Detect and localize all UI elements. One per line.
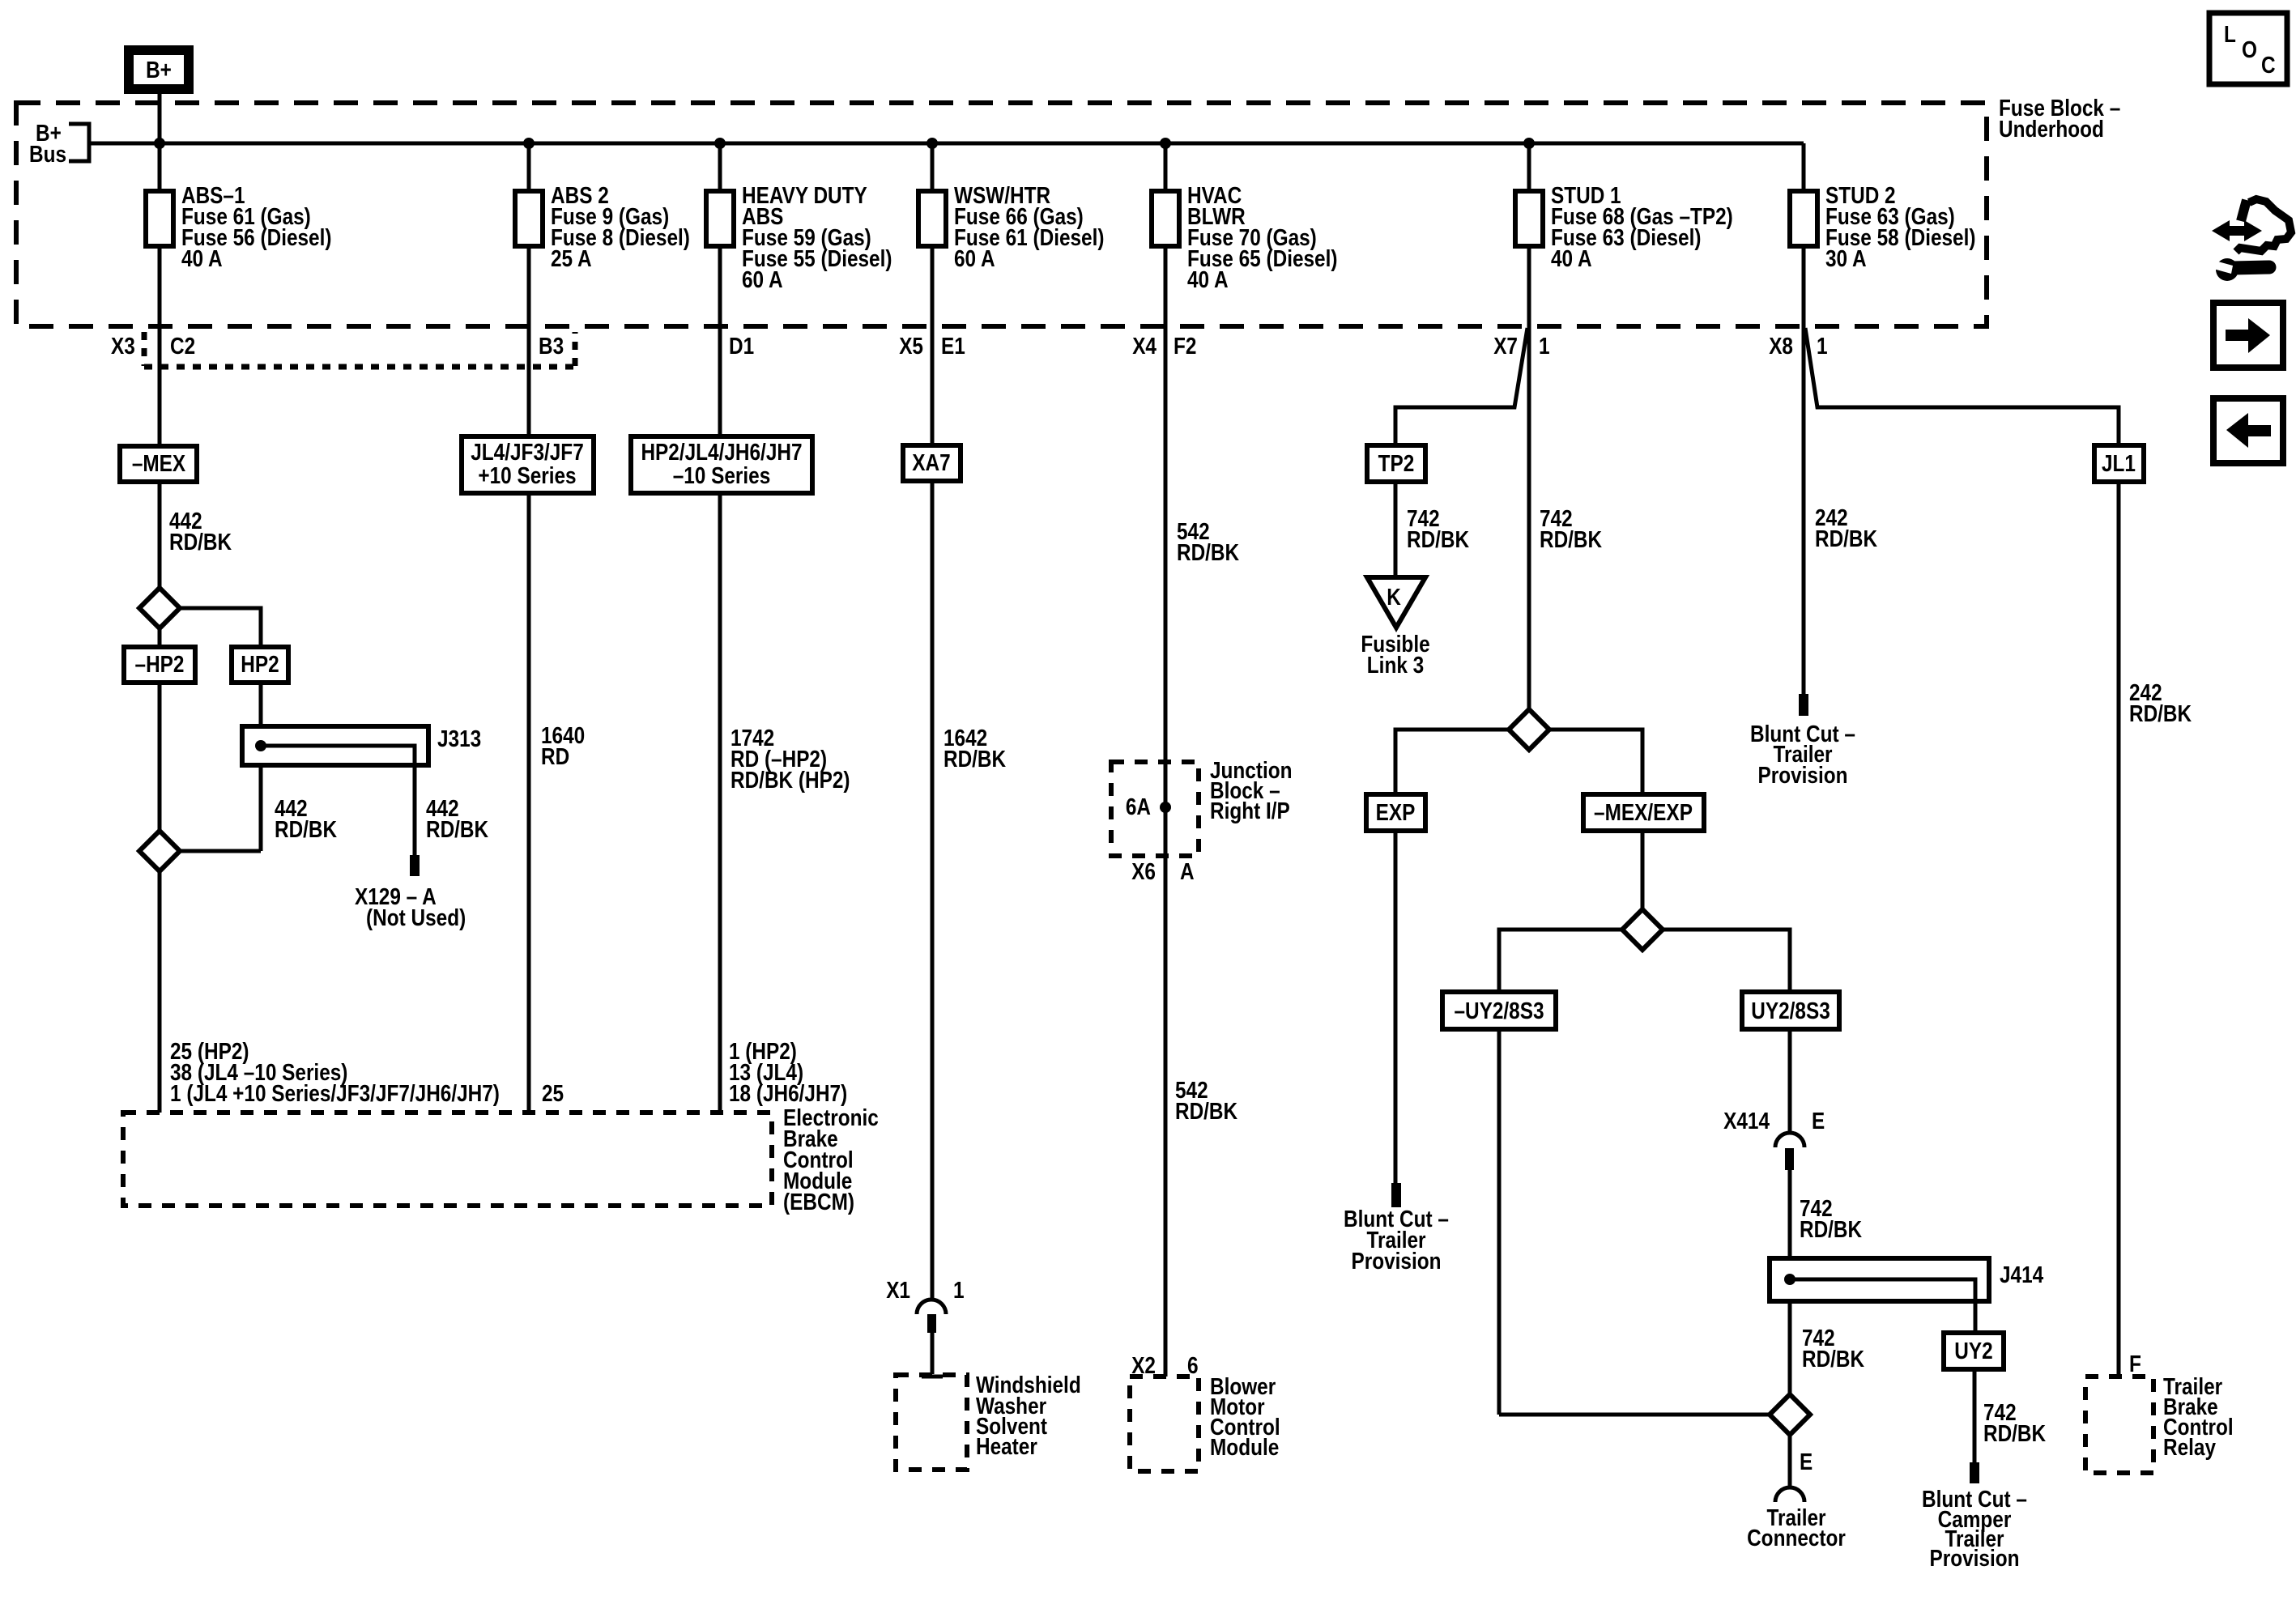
svg-text:RD/BK: RD/BK xyxy=(1177,540,1239,566)
svg-text:UY2: UY2 xyxy=(1954,1338,1992,1364)
svg-text:Provision: Provision xyxy=(1758,763,1848,789)
svg-text:X7: X7 xyxy=(1493,334,1518,360)
junction block right IP dashed outline xyxy=(1111,762,1199,856)
svg-text:1: 1 xyxy=(1817,334,1828,360)
svg-text:Heater: Heater xyxy=(976,1434,1037,1460)
svg-text:–UY2/8S3: –UY2/8S3 xyxy=(1454,998,1544,1024)
option box -HP2 xyxy=(124,647,195,683)
wire to -MEX/EXP xyxy=(1549,730,1642,794)
node junction dot fuse6 xyxy=(1523,138,1535,149)
icon service glove outline xyxy=(2236,199,2291,252)
icon double arrow xyxy=(2212,220,2262,241)
wire diamond to -UY2/8S3 leg xyxy=(1499,1413,1770,1417)
svg-text:RD/BK: RD/BK xyxy=(1802,1347,1864,1372)
svg-text:RD/BK (HP2): RD/BK (HP2) xyxy=(731,768,850,794)
svg-text:E: E xyxy=(1800,1449,1813,1475)
splice pack J414 xyxy=(1770,1258,1989,1301)
svg-text:X3: X3 xyxy=(111,334,135,360)
splice diamond trailer xyxy=(1770,1394,1810,1435)
svg-text:40 A: 40 A xyxy=(1551,246,1592,272)
SECTION: stud1 branch xyxy=(1344,326,2046,1572)
icon LOC box xyxy=(2209,13,2287,84)
svg-text:D1: D1 xyxy=(729,334,754,360)
fuse STUD 1 xyxy=(1515,191,1543,246)
svg-text:J313: J313 xyxy=(437,726,481,752)
svg-text:25: 25 xyxy=(542,1081,564,1107)
option box -MEX xyxy=(120,446,197,482)
svg-text:Provision: Provision xyxy=(1930,1546,2020,1572)
wire to EBCM pin xyxy=(158,871,162,1113)
fuse HEAVY DUTY ABS xyxy=(706,191,734,246)
wire bus drop fuse3 xyxy=(718,143,722,326)
svg-text:RD/BK: RD/BK xyxy=(1815,526,1877,552)
connector X1 arc xyxy=(917,1300,946,1314)
svg-text:K: K xyxy=(1387,585,1401,611)
svg-text:F: F xyxy=(2129,1351,2141,1377)
svg-text:XA7: XA7 xyxy=(912,450,950,476)
connector X414 arc xyxy=(1775,1133,1804,1147)
svg-text:6A: 6A xyxy=(1126,794,1151,820)
terminal X129 blunt xyxy=(410,855,420,876)
option box -MEX/EXP xyxy=(1583,794,1704,831)
node 6A dot xyxy=(1160,802,1171,813)
connector trailer arc xyxy=(1775,1487,1804,1502)
wire UY2 to camper blunt cut xyxy=(1973,1369,1977,1462)
wire STUD1 742 RD/BK xyxy=(1527,326,1531,709)
fuse ABS-1 xyxy=(146,191,173,246)
wire branch to HP2 xyxy=(180,608,261,647)
node junction dot fuse3 xyxy=(714,138,726,149)
svg-text:RD/BK: RD/BK xyxy=(275,817,337,843)
svg-text:O: O xyxy=(2242,37,2257,63)
svg-text:HP2: HP2 xyxy=(241,652,279,678)
option box -UY2/8S3 xyxy=(1442,992,1556,1029)
svg-text:HP2/JL4/JH6/JH7: HP2/JL4/JH6/JH7 xyxy=(641,440,802,466)
fuse STUD 2 xyxy=(1790,191,1817,246)
wire X7 slant to TP2 xyxy=(1395,328,1527,445)
terminal blunt cut trailer provision right xyxy=(1799,694,1808,716)
svg-text:1: 1 xyxy=(1539,334,1550,360)
svg-text:L: L xyxy=(2224,22,2236,48)
wire STUD2 242 RD/BK xyxy=(1802,326,1806,694)
svg-text:X1: X1 xyxy=(886,1278,910,1304)
battery feed B+ terminal xyxy=(129,50,189,89)
svg-text:TP2: TP2 xyxy=(1378,451,1415,477)
option box XA7 xyxy=(903,445,961,481)
wire HP2 to splice pack xyxy=(259,683,263,851)
SECTION: left branch ABS-1 xyxy=(120,446,879,1215)
connector C2-B3 dotted outline xyxy=(144,332,575,367)
SECTION: branches ABS2 HDABS WSW HVAC xyxy=(462,326,1293,1471)
wire to EXP xyxy=(1395,730,1509,794)
option box HP2 xyxy=(232,647,288,683)
wire J414 branch to UY2 xyxy=(1790,1279,1975,1333)
svg-text:J414: J414 xyxy=(2000,1262,2043,1288)
svg-text:–HP2: –HP2 xyxy=(135,652,185,678)
SECTION: stud2 branch xyxy=(1750,326,2234,1473)
node junction dot fuse4 xyxy=(926,138,938,149)
svg-text:–MEX/EXP: –MEX/EXP xyxy=(1594,800,1693,826)
svg-text:X6: X6 xyxy=(1131,859,1156,885)
wire 442 RD/BK upper xyxy=(158,482,162,588)
svg-text:RD/BK: RD/BK xyxy=(169,530,232,555)
wire to UY2/8S3 xyxy=(1663,930,1790,992)
svg-text:RD/BK: RD/BK xyxy=(1175,1099,1237,1125)
svg-text:EXP: EXP xyxy=(1376,800,1416,826)
svg-text:Connector: Connector xyxy=(1747,1526,1846,1551)
option box JL1 xyxy=(2094,445,2144,482)
wire bus drop fuse6 xyxy=(1527,143,1531,326)
svg-text:(EBCM): (EBCM) xyxy=(783,1189,854,1215)
svg-text:40 A: 40 A xyxy=(1187,267,1229,293)
wire EXP to blunt cut xyxy=(1394,831,1398,1183)
module EBCM dashed outline xyxy=(123,1113,772,1206)
wire WSW circuit 1642 xyxy=(931,326,935,1300)
wire ABS2 circuit 1640 xyxy=(527,326,531,1113)
node J313 dot xyxy=(255,740,266,751)
fuse HVAC BLWR xyxy=(1152,191,1179,246)
svg-text:X414: X414 xyxy=(1723,1108,1770,1134)
svg-text:RD/BK: RD/BK xyxy=(944,747,1006,772)
icon arrow right box xyxy=(2213,303,2283,368)
svg-text:X5: X5 xyxy=(899,334,923,360)
option box TP2 xyxy=(1367,445,1425,482)
svg-text:E1: E1 xyxy=(941,334,965,360)
svg-text:C2: C2 xyxy=(170,334,195,360)
node junction dot fuse1 xyxy=(154,138,165,149)
option box EXP xyxy=(1366,794,1425,831)
wire -UY2/8S3 down xyxy=(1497,1029,1502,1415)
terminal T bar xyxy=(922,1375,943,1379)
svg-text:RD/BK: RD/BK xyxy=(2129,701,2192,727)
svg-text:A: A xyxy=(1180,859,1195,885)
option box UY2 xyxy=(1944,1333,2004,1369)
wire 242 RD/BK JL1 to relay xyxy=(2117,482,2121,1377)
svg-text:RD/BK: RD/BK xyxy=(1540,527,1602,553)
svg-text:Right I/P: Right I/P xyxy=(1210,798,1290,824)
splice diamond upper xyxy=(139,588,180,628)
wire UY2/8S3 to X414 xyxy=(1788,1029,1792,1134)
Fuse Block - Underhood dashed outline xyxy=(16,103,1987,326)
svg-text:RD/BK: RD/BK xyxy=(426,817,488,843)
svg-text:–MEX: –MEX xyxy=(132,451,186,477)
splice pack J313 xyxy=(242,726,428,765)
wire bus drop fuse2 xyxy=(527,143,531,326)
svg-text:30 A: 30 A xyxy=(1825,246,1867,272)
svg-text:JL1: JL1 xyxy=(2102,451,2136,477)
svg-text:RD/BK: RD/BK xyxy=(1800,1217,1862,1243)
wire X8 slant to JL1 xyxy=(1805,328,2119,445)
wire J313 branch to X129 xyxy=(261,746,415,855)
wire HDABS circuit 1742 xyxy=(718,326,722,1113)
fuse WSW/HTR xyxy=(918,191,946,246)
svg-text:Relay: Relay xyxy=(2163,1435,2216,1461)
wire 742 RD/BK to fusible link xyxy=(1394,482,1398,577)
svg-text:RD: RD xyxy=(541,744,569,770)
option box HP2/JL4/JH6/JH7 -10 Series xyxy=(631,436,812,493)
wire -MEX continues xyxy=(158,628,162,831)
svg-text:X4: X4 xyxy=(1132,334,1157,360)
terminal X414 male xyxy=(1785,1148,1794,1170)
terminal blunt cut trailer provision left xyxy=(1391,1183,1401,1207)
svg-text:18 (JH6/JH7): 18 (JH6/JH7) xyxy=(729,1081,847,1107)
node B+ Bus bracket xyxy=(69,124,89,161)
terminal X1 male xyxy=(927,1314,936,1333)
wire into washer heater xyxy=(931,1333,935,1374)
node J414 dot xyxy=(1784,1274,1795,1285)
svg-text:X8: X8 xyxy=(1769,334,1793,360)
wire HP2 rejoin xyxy=(180,849,261,853)
node junction dot fuse2 xyxy=(523,138,535,149)
svg-text:1: 1 xyxy=(953,1278,965,1304)
wire B+ feed vertical xyxy=(158,94,162,446)
wire bus drop fuse7 xyxy=(1802,143,1806,326)
svg-text:UY2/8S3: UY2/8S3 xyxy=(1751,998,1830,1024)
option box JL4/JF3/JF7 +10 Series xyxy=(462,436,594,493)
svg-text:+10 Series: +10 Series xyxy=(478,463,576,489)
node junction dot fuse5 xyxy=(1160,138,1171,149)
svg-text:B+: B+ xyxy=(146,57,172,83)
svg-text:JL4/JF3/JF7: JL4/JF3/JF7 xyxy=(471,440,584,466)
splice diamond mid xyxy=(1622,909,1663,950)
svg-text:B3: B3 xyxy=(539,334,564,360)
wire bus drop fuse4 xyxy=(931,143,935,326)
option box UY2/8S3 xyxy=(1742,992,1839,1029)
wire to trailer connector xyxy=(1788,1435,1792,1487)
svg-text:Module: Module xyxy=(1210,1435,1279,1461)
svg-text:–10 Series: –10 Series xyxy=(673,463,771,489)
component Blower Motor Control Module dashed outline xyxy=(1130,1377,1199,1471)
svg-text:Provision: Provision xyxy=(1352,1249,1442,1274)
svg-text:60 A: 60 A xyxy=(742,267,783,293)
SECTION: fuse block underhood xyxy=(16,50,2120,446)
svg-text:Underhood: Underhood xyxy=(1999,117,2104,143)
splice diamond stud1 xyxy=(1509,709,1549,750)
wire 742 RD/BK to J414 xyxy=(1788,1169,1792,1394)
wire to -UY2/8S3 xyxy=(1499,930,1622,992)
icon wrench xyxy=(2216,258,2238,281)
component Trailer Brake Control Relay dashed outline xyxy=(2085,1377,2153,1473)
svg-text:1 (JL4 +10 Series/JF3/JF7/JH6/: 1 (JL4 +10 Series/JF3/JF7/JH6/JH7) xyxy=(170,1081,500,1107)
fusible link K xyxy=(1367,577,1425,628)
wire -MEX/EXP to diamond xyxy=(1641,831,1645,909)
svg-text:40 A: 40 A xyxy=(181,246,223,272)
wire bus drop fuse5 xyxy=(1164,143,1168,326)
fuse ABS 2 xyxy=(515,191,543,246)
svg-text:RD/BK: RD/BK xyxy=(1983,1421,2046,1447)
svg-text:25 A: 25 A xyxy=(551,246,592,272)
icon arrow left box xyxy=(2213,398,2283,463)
wire B+ bus xyxy=(89,142,1804,146)
svg-text:60 A: 60 A xyxy=(954,246,995,272)
component Windshield Washer Solvent Heater dashed outline xyxy=(896,1375,967,1470)
svg-text:C: C xyxy=(2261,53,2276,79)
terminal blunt cut camper xyxy=(1970,1462,1979,1483)
svg-text:Link 3: Link 3 xyxy=(1367,653,1424,679)
svg-text:Bus: Bus xyxy=(29,142,66,168)
wire HVAC circuit 542 xyxy=(1164,326,1168,1377)
svg-text:E: E xyxy=(1812,1108,1825,1134)
svg-text:F2: F2 xyxy=(1174,334,1196,360)
SECTION: icons xyxy=(2209,13,2291,463)
svg-text:(Not Used): (Not Used) xyxy=(366,905,466,931)
splice diamond lower xyxy=(139,831,180,871)
svg-text:RD/BK: RD/BK xyxy=(1407,527,1469,553)
